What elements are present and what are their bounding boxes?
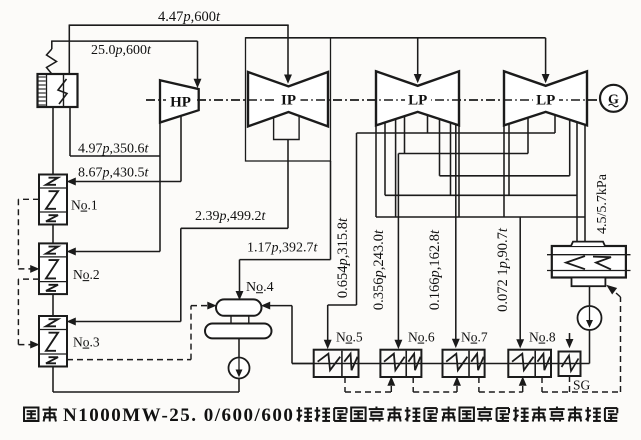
svg-text:No.6: No.6: [408, 330, 435, 345]
svg-text:No.8: No.8: [529, 330, 556, 345]
svg-text:1.17p,392.7t: 1.17p,392.7t: [247, 241, 319, 256]
svg-text:8.67p,430.5t: 8.67p,430.5t: [78, 166, 150, 181]
svg-text:LP: LP: [536, 93, 555, 109]
svg-text:SG: SG: [573, 378, 591, 393]
svg-text:4.5/5.7kPa: 4.5/5.7kPa: [595, 173, 610, 234]
svg-text:N1000MW-25. 0/600/600: N1000MW-25. 0/600/600: [63, 405, 294, 426]
svg-text:No.3: No.3: [73, 335, 100, 350]
svg-text:No.5: No.5: [336, 330, 363, 345]
svg-text:No.2: No.2: [73, 267, 100, 282]
svg-text:25.0p,600t: 25.0p,600t: [91, 43, 152, 58]
svg-text:0.654p,315.8t: 0.654p,315.8t: [335, 217, 351, 298]
svg-text:4.47p,600t: 4.47p,600t: [158, 9, 221, 25]
svg-text:2.39p,499.2t: 2.39p,499.2t: [195, 209, 267, 224]
svg-text:No.1: No.1: [71, 198, 98, 213]
svg-text:LP: LP: [408, 93, 427, 109]
svg-text:HP: HP: [170, 95, 191, 111]
svg-text:0.356p,243.0t: 0.356p,243.0t: [371, 229, 387, 310]
svg-text:IP: IP: [281, 93, 296, 109]
svg-text:4.97p,350.6t: 4.97p,350.6t: [78, 142, 150, 157]
svg-text:0.166p,162.8t: 0.166p,162.8t: [427, 229, 443, 310]
svg-text:No.7: No.7: [461, 330, 488, 345]
svg-text:0.072 1p,90.7t: 0.072 1p,90.7t: [495, 227, 511, 312]
